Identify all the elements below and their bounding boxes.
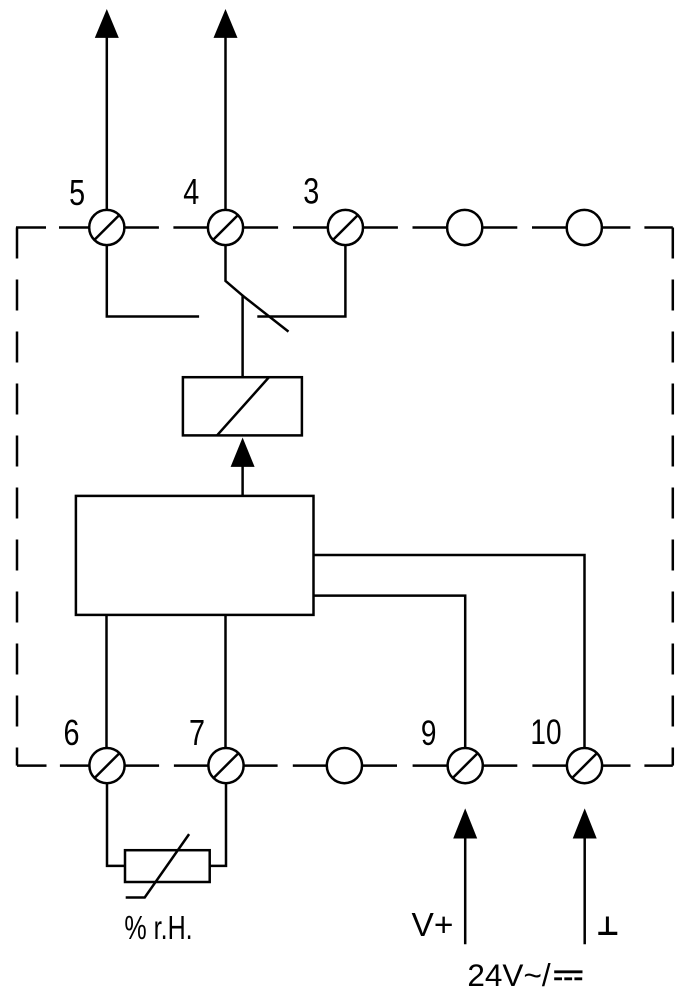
dashed enclosure bottom edge segment T6-T7 bbox=[125, 764, 209, 767]
svg-text:4: 4 bbox=[183, 171, 199, 212]
terminal 6 bbox=[89, 748, 124, 783]
dashed enclosure bottom edge segment T9-T10 bbox=[483, 764, 567, 767]
terminal 5 bbox=[89, 210, 124, 245]
wire controller block to terminal 10 bbox=[314, 555, 585, 748]
arrowhead supply V+ bbox=[453, 808, 477, 838]
terminal 7 bbox=[208, 748, 243, 783]
humidity sensor B1 variable-characteristic stroke bbox=[126, 834, 189, 897]
svg-text:6: 6 bbox=[63, 712, 79, 753]
wire controller block to terminal 7 bbox=[224, 615, 227, 748]
svg-text:5: 5 bbox=[69, 172, 85, 213]
dashed enclosure bottom edge segment T7-P3 bbox=[244, 764, 327, 767]
wire terminal 7 to humidity sensor bbox=[210, 783, 226, 866]
dashed enclosure bottom edge segment P3-T9 bbox=[362, 764, 448, 767]
wire output arrow line from terminal 4 bbox=[224, 25, 227, 210]
switch blade contact S1 bbox=[243, 296, 289, 332]
wire controller block to terminal 9 bbox=[314, 596, 466, 749]
arrowhead output terminal 5 bbox=[95, 9, 119, 38]
controller block U1 bbox=[76, 496, 314, 615]
arrowhead controller drives relay bbox=[231, 438, 255, 467]
svg-text:7: 7 bbox=[189, 712, 205, 753]
terminal 3 bbox=[328, 210, 363, 245]
wire terminal 6 to humidity sensor bbox=[107, 783, 125, 866]
dashed enclosure top edge segment T5-T4 bbox=[124, 226, 207, 229]
wire controller block to terminal 6 bbox=[105, 615, 108, 748]
wire supply ground arrow line into terminal 10 bbox=[583, 836, 586, 944]
terminal 4 bbox=[208, 210, 243, 245]
arrowhead output terminal 4 bbox=[214, 9, 238, 38]
relay coil K1 diagonal bbox=[217, 377, 269, 435]
wire terminal 3 to NO contact of relay switch bbox=[257, 245, 345, 316]
svg-text:9: 9 bbox=[421, 713, 437, 753]
dashed enclosure top edge segment P2-corner bbox=[602, 226, 673, 229]
wire supply V+ arrow line into terminal 9 bbox=[464, 836, 467, 944]
svg-text:10: 10 bbox=[530, 712, 561, 752]
wire terminal 4 to switch pivot and down to relay coil bbox=[226, 245, 243, 377]
ground symbol at terminal 10 bbox=[606, 917, 609, 933]
dashed enclosure bottom edge segment corner-to-T6 bbox=[17, 764, 89, 767]
dashed enclosure bottom edge segment T10-corner bbox=[602, 764, 673, 767]
arrowhead supply ground bbox=[573, 808, 597, 838]
dashed enclosure top edge segment T4-T3 bbox=[243, 226, 328, 229]
dashed enclosure top edge segment P1-P2 bbox=[482, 226, 566, 229]
relay coil K1 box bbox=[183, 377, 302, 435]
dashed enclosure top edge segment T3-P1 bbox=[363, 226, 447, 229]
dashed enclosure top edge segment corner-to-T5 bbox=[16, 226, 89, 229]
svg-text:% r.H.: % r.H. bbox=[124, 910, 192, 947]
svg-text:24V~/: 24V~/ bbox=[467, 957, 550, 993]
svg-text:3: 3 bbox=[303, 170, 319, 211]
svg-text:V+: V+ bbox=[412, 907, 454, 944]
unused terminal P1 top bbox=[447, 210, 482, 245]
humidity sensor B1 body bbox=[125, 850, 210, 882]
dashed enclosure right edge bbox=[672, 228, 675, 766]
dashed enclosure left edge bbox=[16, 228, 19, 766]
supply DC symbol solid bar bbox=[554, 970, 582, 973]
supply DC symbol dashed bar bbox=[554, 977, 582, 980]
terminal 9 bbox=[448, 748, 483, 783]
wire controller block to relay coil bbox=[241, 465, 244, 496]
wire output arrow line from terminal 5 bbox=[106, 25, 109, 210]
terminal 10 bbox=[567, 748, 602, 783]
unused terminal P2 top bbox=[567, 210, 602, 245]
unused terminal P3 bottom bbox=[327, 748, 362, 783]
wire terminal 5 to NC contact of relay switch bbox=[107, 245, 199, 316]
